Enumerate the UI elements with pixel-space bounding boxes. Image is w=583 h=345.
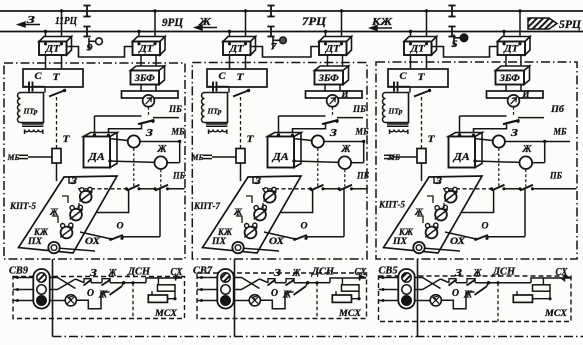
svg-text:О: О (87, 288, 94, 299)
impedance bond ДТ3 (223, 37, 256, 56)
insulated joint on rail 1 at x=87 (86, 6, 88, 17)
terminal ПХ double circle (413, 242, 424, 253)
МСХ bracket wire (531, 278, 561, 283)
wire link between bond pair (251, 47, 320, 58)
main lighting wire (441, 279, 450, 283)
svg-text:СВ9: СВ9 (9, 266, 29, 277)
lamp with arrow symbol (65, 295, 76, 306)
wire lamp to contact О (76, 292, 101, 309)
wire ДА to relay Ж (292, 159, 295, 162)
svg-text:ОХ: ОХ (269, 236, 285, 246)
relay Ж circle (339, 156, 352, 169)
impulse relay И circle (327, 95, 339, 107)
wire lamp to contact О (260, 292, 285, 309)
wire from rail 1 to ДТ6 right terminal (519, 11, 521, 42)
svg-text:7РЦ: 7РЦ (302, 16, 327, 28)
dashed linkage relay З to ПБ bus contact (317, 148, 319, 186)
svg-text:СХ: СХ (556, 267, 568, 278)
contact И with wire to ДА (279, 115, 326, 117)
svg-text:ДСН: ДСН (492, 267, 516, 278)
svg-text:СВ7: СВ7 (193, 266, 213, 277)
wire bond to filter ЗБФ (140, 55, 142, 71)
svg-text:ЗБФ: ЗБФ (134, 73, 156, 83)
svg-text:О: О (301, 222, 308, 232)
trackside signal 7 (272, 37, 274, 49)
lamp feed wires from cable terminals (13, 277, 34, 279)
svg-text:ПБ: ПБ (352, 104, 366, 114)
contact И with wire to ДА (460, 115, 507, 117)
terminal ПХ double circle (48, 242, 59, 253)
track feed block С-Т outline (207, 69, 267, 87)
resistor Т (417, 149, 426, 164)
contact И with wire to ДА (95, 115, 142, 117)
wire И contact to decoder ДА (right) (474, 123, 507, 136)
МСХ bracket wire (146, 278, 176, 283)
wire from ПХ terminal (244, 248, 279, 251)
svg-text:З: З (454, 268, 462, 279)
svg-text:МСХ: МСХ (544, 309, 568, 319)
dashed cable box СВ9 (13, 277, 185, 319)
cam contact З (80, 191, 92, 203)
svg-text:ДСН: ДСН (127, 267, 151, 278)
step wires inside КПТ (246, 196, 252, 203)
wire bond to filter ЗБФ (327, 55, 329, 71)
contact of relay Ж on ПБ bus (155, 185, 168, 191)
СХ output arrow (360, 276, 367, 281)
svg-text:МБ: МБ (7, 152, 20, 162)
svg-text:ПХ: ПХ (211, 236, 227, 246)
dashed ДСН wire down (316, 283, 318, 319)
wire relay З to МБ bus (140, 141, 180, 143)
wire ЗБФ to relay plate (505, 85, 507, 92)
relay mounting plate (487, 91, 544, 98)
svg-text:ПХ: ПХ (392, 236, 408, 246)
wire rail 2 (bottom running rail) (0, 31, 583, 33)
transformer ПТр winding (21, 93, 44, 123)
svg-text:9РЦ: 9РЦ (162, 17, 184, 29)
contact Ж of lamp circuit (466, 291, 475, 293)
svg-text:Ж: Ж (473, 268, 483, 279)
svg-text:Ж: Ж (98, 290, 108, 301)
svg-text:ПХ: ПХ (27, 236, 43, 246)
cam contact КЖ (61, 227, 73, 239)
svg-text:Ж: Ж (522, 144, 533, 155)
signal lamp middle (white) (221, 285, 230, 294)
cable run vertical (234, 259, 236, 337)
dashed ДСН wire down (132, 283, 134, 319)
wire И contact to decoder ДА (right) (109, 123, 142, 136)
cam contact КЖ (426, 227, 438, 239)
contact Ж of lamp circuit (285, 291, 294, 293)
svg-text:ПБ: ПБ (172, 171, 185, 181)
main lighting wire (260, 279, 269, 283)
impulse relay И circle (143, 95, 155, 107)
relay mounting plate (306, 91, 363, 98)
relay Ж circle (155, 156, 168, 169)
svg-text:Пб: Пб (550, 104, 565, 114)
signal lamp top (hatched) (37, 273, 46, 282)
wire cam КЖ (О circuit) with contact (264, 232, 293, 239)
svg-text:КПТ-7: КПТ-7 (193, 202, 221, 212)
svg-text:ДТ: ДТ (229, 45, 245, 55)
contact of relay Ж on ПБ bus (339, 185, 352, 191)
wire rail 1 (top running rail) (0, 10, 583, 12)
wire resistor Т to code transmitter (240, 163, 242, 181)
svg-text:ДА: ДА (453, 151, 470, 163)
dashed linkage relay Ж to ПБ bus contact (525, 169, 527, 186)
wire cam КЖ (О circuit) with contact (80, 232, 109, 239)
svg-text:З: З (435, 176, 443, 186)
svg-text:МБ: МБ (171, 127, 185, 137)
wire resistor Т to code transmitter (56, 163, 58, 181)
wire И contact to decoder ДА (left) (459, 116, 461, 135)
svg-text:И: И (341, 89, 350, 99)
svg-text:З: З (254, 176, 262, 186)
cam contact Ж (254, 209, 266, 221)
signal head СВ9 (33, 269, 49, 309)
dashed linkage from contact Т (240, 97, 242, 148)
resistor МСХ (148, 295, 167, 302)
svg-text:МСХ: МСХ (338, 309, 362, 319)
decoder block ДА (449, 133, 483, 168)
МБ feed wire with double-line symbol (203, 154, 212, 156)
svg-text:Ж: Ж (282, 290, 292, 301)
svg-text:МБ: МБ (191, 152, 204, 162)
svg-text:ОХ: ОХ (85, 236, 101, 246)
resistor Т (236, 149, 245, 164)
wire from rail 2 to ДТ3 left terminal (229, 32, 231, 43)
dashed ДСН wire down (497, 283, 499, 322)
svg-text:З: З (70, 176, 78, 186)
code transmitter КПТ-5 parallelogram (384, 176, 483, 253)
contact З in lighting circuit (268, 279, 275, 283)
СХ output arrow (561, 276, 571, 281)
relay З circle (312, 135, 324, 147)
svg-text:ДТ: ДТ (410, 45, 426, 55)
contact of relay З on ПБ bus (127, 185, 140, 191)
dashed linkage relay И to contact (148, 107, 150, 116)
wire И contact to decoder ДА (left) (94, 116, 96, 135)
filter block ЗБФ (315, 66, 349, 85)
contact З in lighting circuit (449, 279, 456, 283)
svg-text:ДТ: ДТ (325, 45, 341, 55)
trackside signal 5 (453, 35, 455, 47)
svg-text:С: С (35, 72, 43, 82)
code transmitter КПТ-5 parallelogram (19, 176, 118, 253)
relay З circle (493, 135, 505, 147)
svg-text:МБ: МБ (553, 127, 567, 137)
code transmitter КПТ-7 parallelogram (203, 176, 302, 253)
section cabinet dash-dot border (СВ5 installation) (376, 62, 577, 259)
svg-text:ОХ: ОХ (450, 236, 466, 246)
signal lamp bottom (black) (221, 296, 231, 306)
signal lamp top (hatched) (402, 273, 411, 282)
svg-text:ЗБФ: ЗБФ (499, 73, 521, 83)
svg-text:СХ: СХ (355, 267, 367, 278)
transformer ПТр winding (386, 93, 409, 123)
ПБ bus wire (78, 188, 127, 190)
svg-text:Ж: Ж (157, 144, 168, 155)
svg-text:З: З (329, 128, 337, 139)
wire cam Ж to loop (97, 189, 129, 213)
svg-text:С: С (219, 72, 227, 82)
МСХ bracket wire (330, 278, 360, 283)
wire bond to feed block (229, 55, 231, 69)
svg-text:ДСН: ДСН (311, 267, 335, 278)
cam contact Ж (70, 209, 82, 221)
wire from rail 1 to ДТ1 right terminal (61, 11, 63, 42)
dashed linkage from contact Т (56, 97, 58, 148)
svg-text:ПБ: ПБ (168, 104, 182, 114)
capacitor С (207, 86, 213, 88)
svg-text:ПТр: ПТр (22, 107, 37, 116)
contact З in lighting circuit (84, 279, 91, 283)
wire bond to feed block (45, 55, 47, 69)
lamp feed wires from cable terminals (379, 277, 399, 279)
step wires inside КПТ (427, 196, 433, 203)
contact Ж in lighting circuit (102, 279, 110, 283)
wire cam Ж to loop (281, 189, 313, 213)
wire ЗБФ to relay plate (140, 85, 142, 92)
svg-text:ДА: ДА (272, 151, 289, 163)
lamp with arrow symbol (249, 295, 260, 306)
contact of relay З on ПБ bus (492, 185, 505, 191)
dashed linkage relay Ж to ПБ bus contact (344, 169, 346, 186)
capacitor С (388, 86, 394, 88)
dashed linkage relay З to ПБ bus contact (498, 148, 500, 186)
insulated joint on rail 2 at x=271 (270, 27, 272, 37)
svg-text:З: З (89, 268, 97, 279)
svg-text:И: И (522, 89, 531, 99)
svg-text:ПБ: ПБ (549, 171, 562, 181)
svg-text:З: З (145, 128, 153, 139)
wire from ПХ terminal (60, 248, 95, 251)
impedance bond ДТ2 (133, 37, 166, 56)
cable run vertical (52, 259, 54, 337)
relay З circle (128, 135, 140, 147)
track feed block С-Т outline (388, 69, 448, 87)
impedance bond ДТ4 (319, 37, 352, 56)
wire bond to filter ЗБФ (505, 55, 507, 71)
impedance bond ДТ5 (404, 37, 437, 56)
impedance bond ДТ6 (498, 37, 531, 56)
wire from rail 2 to ДТ6 left terminal (503, 32, 505, 43)
cam contact Ж (435, 209, 447, 221)
wire relay З to МБ bus (324, 141, 364, 143)
svg-text:КПТ-5: КПТ-5 (9, 202, 36, 212)
svg-text:ПБ: ПБ (356, 171, 369, 181)
wire relay З to МБ bus (505, 141, 545, 143)
svg-text:ДТ: ДТ (45, 45, 61, 55)
cable run vertical (417, 259, 419, 337)
svg-text:О: О (117, 222, 124, 232)
lamp feed wires from cable terminals (197, 277, 218, 279)
wire from rail 1 to ДТ4 right terminal (341, 11, 343, 42)
svg-text:С: С (400, 72, 408, 82)
svg-text:З: З (510, 128, 518, 139)
wire from rail 1 to ДТ2 right terminal (154, 11, 156, 42)
wire ДА to relay Ж (108, 159, 111, 162)
wire resistor Т to code transmitter (421, 163, 423, 181)
filter block ЗБФ (131, 66, 165, 85)
contact Ж of lamp circuit (101, 291, 110, 293)
insulated joint on rail 1 at x=271 (270, 6, 272, 17)
svg-text:ДТ: ДТ (503, 45, 519, 55)
signal head СВ7 (217, 269, 233, 309)
track transformer secondary winding (206, 123, 228, 125)
svg-text:З: З (273, 268, 281, 279)
crossed wires at signal head output (50, 278, 76, 289)
svg-text:ДТ: ДТ (138, 45, 154, 55)
dashed cable box СВ7 (197, 273, 367, 319)
svg-text:О: О (482, 222, 489, 232)
step wires inside КПТ (62, 196, 68, 203)
wire to МСХ block (498, 282, 531, 284)
svg-text:5РЦ: 5РЦ (559, 19, 582, 31)
ПБ bus wire (262, 188, 311, 190)
resistor МСХ (332, 295, 351, 302)
wire ЗБФ to relay plate (324, 85, 326, 92)
svg-text:КПТ-5: КПТ-5 (378, 201, 405, 211)
svg-text:11РЦ: 11РЦ (55, 15, 77, 27)
wire lamp to contact О (441, 292, 466, 309)
wire link between bond pair (67, 47, 133, 58)
svg-text:Ж: Ж (292, 268, 302, 279)
svg-text:ПТр: ПТр (206, 107, 221, 116)
impedance bond ДТ1 (39, 37, 72, 56)
occupied-track arrow symbol (train on 5РЦ) (528, 18, 557, 29)
contact Т of feed block (247, 89, 250, 92)
insulated joint on rail 1 at x=452 (451, 6, 453, 17)
track transformer secondary winding (387, 123, 409, 125)
signal lamp middle (white) (402, 285, 411, 294)
МБ feed wire with double-line symbol (19, 154, 28, 156)
lamp with arrow symbol (430, 295, 441, 306)
dashed linkage relay И to contact (332, 107, 334, 116)
МСХ small box (342, 285, 360, 291)
wire И contact to decoder ДА (right) (293, 123, 326, 136)
svg-text:ДА: ДА (88, 151, 105, 163)
wire bond to feed block (410, 55, 412, 69)
signal lamp middle (white) (37, 285, 46, 294)
wire from ПХ terminal (425, 248, 460, 251)
signal head СВ5 (398, 269, 414, 309)
ПБ bus wire (443, 188, 492, 190)
wire И contact to decoder ДА (left) (278, 116, 280, 135)
contact Ж in lighting circuit (467, 279, 475, 283)
transformer ПТр winding (205, 93, 228, 123)
dashed linkage from contact Т (421, 97, 423, 148)
lamp circuit wire (bottom row) (415, 300, 431, 302)
svg-text:О: О (452, 288, 459, 299)
crossed wires at signal head output (234, 278, 260, 289)
signal lamp top (hatched) (221, 273, 230, 282)
insulated joint on rail 2 at x=452 (451, 27, 453, 37)
contact of relay Ж on ПБ bus (520, 185, 533, 191)
cam contact КЖ (245, 227, 257, 239)
signal lamp bottom (black) (402, 296, 412, 306)
СХ output arrow (176, 276, 183, 281)
lamp circuit wire (bottom row) (234, 300, 250, 302)
contact Т of feed block (428, 89, 431, 92)
wire link between bond pair (432, 47, 498, 58)
filter block ЗБФ (496, 66, 530, 85)
decoder block ДА (84, 133, 118, 168)
crossed wires at signal head output (415, 278, 441, 289)
svg-text:ЗБФ: ЗБФ (318, 73, 340, 83)
wire from rail 2 to ДТ5 left terminal (410, 32, 412, 43)
wire from rail 1 to ДТ3 right terminal (245, 11, 247, 42)
track feed block С-Т outline (23, 69, 83, 87)
wire cam КЖ (О circuit) with contact (445, 232, 474, 239)
wire ДА to relay З (295, 139, 312, 141)
section cabinet dash-dot border (СВ9 installation) (4, 63, 185, 259)
МСХ small box (158, 285, 176, 291)
svg-text:Ж: Ж (341, 144, 352, 155)
wire to МСХ block (317, 282, 330, 284)
relay Ж circle (520, 156, 533, 169)
svg-text:О: О (271, 288, 278, 299)
lamp circuit wire (bottom row) (50, 300, 66, 302)
svg-text:СВ5: СВ5 (379, 266, 398, 277)
section cabinet dash-dot border (СВ7 installation) (192, 63, 367, 260)
svg-text:Ж: Ж (463, 290, 473, 301)
svg-text:9: 9 (87, 44, 93, 54)
decoder block ДА (268, 133, 302, 168)
terminal ПХ double circle (232, 242, 243, 253)
wire ДА to relay Ж (473, 159, 476, 162)
svg-text:Ж: Ж (108, 268, 118, 279)
insulated joint on rail 2 at x=87 (86, 27, 88, 37)
signal lamp bottom (black) (37, 296, 47, 306)
resistor МСХ (513, 295, 532, 302)
svg-text:ПТр: ПТр (387, 107, 402, 116)
inter-signal cable dash-dot line (53, 336, 583, 338)
МСХ small box (533, 285, 551, 291)
relay mounting plate (122, 91, 179, 98)
svg-text:5: 5 (452, 40, 458, 50)
dashed cable box СВ5 (379, 276, 572, 322)
МБ feed wire with double-line symbol (384, 154, 393, 156)
svg-text:МСХ: МСХ (154, 309, 178, 319)
wire ДА to relay З (476, 139, 493, 141)
cam contact З (445, 191, 457, 203)
wire cam Ж to loop (462, 189, 494, 213)
main lighting wire (76, 279, 85, 283)
impulse relay И circle (508, 95, 520, 107)
contact Ж in lighting circuit (286, 279, 294, 283)
contact Т of feed block (63, 89, 66, 92)
cam contact З (264, 191, 276, 203)
wire from rail 2 to ДТ1 left terminal (45, 32, 47, 43)
dashed linkage relay З to ПБ bus contact (133, 148, 135, 186)
dashed linkage relay Ж to ПБ bus contact (160, 169, 162, 186)
svg-text:МБ: МБ (355, 127, 369, 137)
trackside signal 9 (88, 38, 90, 50)
svg-text:СХ: СХ (171, 267, 183, 278)
wire from rail 2 to ДТ2 left terminal (138, 32, 140, 43)
resistor Т (52, 149, 61, 164)
wire from rail 2 to ДТ4 left terminal (325, 32, 327, 43)
track transformer secondary winding (22, 123, 44, 125)
wire ДА to relay З (111, 139, 128, 141)
wire from rail 1 to ДТ5 right terminal (426, 11, 428, 42)
contact of relay З on ПБ bus (311, 185, 324, 191)
dashed linkage relay И to contact (513, 107, 515, 116)
capacitor С (23, 86, 29, 88)
wire to МСХ block (133, 282, 146, 284)
